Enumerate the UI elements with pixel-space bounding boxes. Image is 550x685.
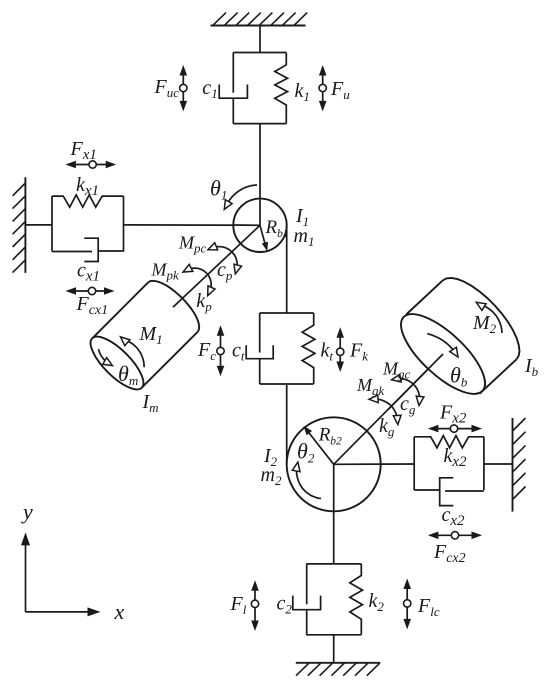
damper c1 lower rod (232, 98, 234, 123)
wire box to wall (484, 463, 513, 465)
shaft p (173, 225, 260, 307)
spring kx2 (414, 436, 484, 448)
label Fcx1 (76, 293, 109, 318)
arc M1 (121, 337, 145, 367)
torque arc Mgc-cg (392, 374, 424, 405)
label I1 (295, 205, 309, 229)
label kp (196, 290, 212, 314)
label Mgc (382, 359, 411, 382)
arc theta m (99, 349, 113, 366)
unit1 top bar (233, 52, 286, 54)
svg-text:y: y (21, 499, 33, 524)
label Mpc (178, 232, 207, 255)
wire wall to box (25, 224, 52, 226)
label I2 (263, 445, 278, 469)
damper cx1 out (98, 250, 123, 252)
label ct (232, 340, 245, 364)
spring k2 (350, 564, 363, 635)
damper c2 cup (293, 596, 321, 610)
axis x (26, 607, 101, 616)
label k1 (295, 80, 310, 104)
motor M2 cylinder (389, 278, 519, 406)
label Rb2 (318, 425, 342, 448)
wire rope unit2 to pulley2 (286, 384, 288, 464)
label y (21, 499, 33, 524)
label Fl (230, 593, 247, 617)
label Mgk (356, 375, 385, 398)
wire rope pulley2 right (334, 463, 415, 465)
force Fu (319, 65, 327, 111)
label M2 (472, 312, 497, 336)
force Fcx2 (428, 532, 482, 540)
label cg (400, 393, 416, 417)
motor M1 cylinder (83, 281, 199, 397)
left wall (13, 177, 26, 273)
radius arrow Rb1 (260, 225, 268, 251)
wire rope pulley2 down (333, 464, 335, 564)
damper cx2 cup (440, 478, 454, 506)
label m2 (261, 464, 282, 488)
wire rope inside pulley1 h (233, 224, 260, 226)
unit3 bottom bar (306, 634, 361, 636)
label kt (321, 340, 334, 364)
wire rope bottom (333, 635, 335, 663)
damper cx2 link (414, 489, 440, 491)
wire rope to pulley1 (259, 124, 261, 226)
label Fcx2 (433, 541, 466, 566)
label Ib (524, 355, 539, 379)
damper cx1 rod (52, 251, 92, 253)
unit kx2 left wall (413, 437, 415, 490)
unit2 top bar (260, 312, 314, 314)
label c1 (202, 77, 217, 101)
label theta b (450, 363, 468, 390)
bottom ground (296, 663, 380, 676)
label k2 (369, 590, 385, 614)
damper cx2 rod (445, 490, 484, 492)
label Rb1 (265, 217, 289, 240)
damper ct rod (259, 313, 261, 353)
top ground (211, 13, 308, 26)
arc M2 (476, 302, 502, 333)
force Flc (403, 579, 411, 630)
damper c1 rod (232, 53, 234, 93)
damper c2 rod (306, 564, 308, 604)
force Fx2 (428, 425, 482, 433)
label kg (379, 415, 395, 439)
label cp (217, 259, 233, 283)
wire rope top (259, 26, 261, 53)
angle arc theta1 (224, 185, 257, 209)
angle arc theta2 (292, 462, 321, 498)
label x (114, 599, 125, 624)
axis y (21, 532, 30, 612)
label Flc (417, 595, 440, 619)
label theta m (118, 361, 138, 388)
force Fcx1 (66, 287, 115, 295)
radius arrow Rb2 (304, 426, 334, 465)
unit3 top bar (306, 563, 361, 565)
damper c1 cup (219, 85, 247, 99)
label theta1 (210, 176, 227, 203)
label Fuc (154, 76, 180, 100)
unit1 bottom bar (233, 123, 286, 125)
svg-text:x: x (114, 599, 125, 624)
damper cx1 cup (84, 238, 98, 261)
force Fk (336, 327, 344, 372)
wire box to pulley1 (124, 224, 261, 226)
label theta2 (297, 439, 315, 466)
arc theta b (427, 334, 458, 357)
unit kx2 right wall (483, 437, 485, 490)
spring kt (302, 313, 315, 384)
label Mpk (151, 260, 180, 283)
label Fk (349, 340, 368, 364)
label kx1 (76, 174, 99, 199)
label Im (142, 391, 159, 415)
wire rope pulley1 right (286, 225, 288, 313)
label m1 (294, 225, 315, 249)
force Fl (251, 580, 259, 631)
torque arc Mpc-cp (208, 243, 242, 274)
label M1 (139, 323, 163, 347)
label c2 (277, 593, 293, 617)
wire rope inside pulley1 v (259, 199, 261, 226)
label Fc (197, 339, 216, 363)
unit kx1 right wall (123, 196, 125, 251)
spring k1 (275, 53, 288, 124)
label cx1 (77, 260, 100, 285)
shaft g (334, 354, 443, 464)
label Fx2 (439, 402, 467, 427)
label cx2 (442, 504, 466, 529)
force Fx1 (65, 161, 116, 169)
wire shaft into face (388, 354, 443, 410)
force Fuc (180, 65, 188, 111)
pulley Rb1 (233, 199, 286, 252)
torque arc Mgk-kg (369, 395, 401, 425)
label Fu (330, 78, 350, 102)
unit kx1 left wall (51, 196, 53, 251)
label Fx1 (70, 138, 97, 163)
damper ct cup (246, 345, 273, 359)
spring kx1 (52, 195, 124, 207)
unit2 bottom bar (260, 383, 314, 385)
damper ct lower rod (259, 359, 261, 384)
pulley Rb2 (287, 417, 381, 511)
label kx2 (444, 445, 468, 470)
force Fc (217, 325, 225, 376)
right wall (513, 418, 526, 512)
torque arc Mpk-kp (183, 264, 215, 295)
damper c2 lower rod (306, 610, 308, 635)
